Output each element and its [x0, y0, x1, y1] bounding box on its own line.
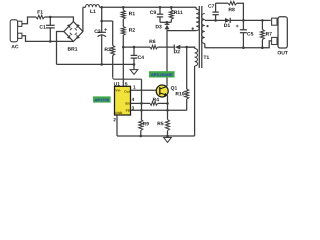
wire ground rail [117, 135, 195, 137]
node R9 bottom [140, 135, 143, 138]
resistor R3 [105, 21, 115, 56]
label AP3706 [93, 96, 111, 102]
inductor L1 [83, 5, 100, 14]
wire fuse to bridge top vertex [45, 17, 74, 22]
wire collector line [166, 31, 168, 87]
capacitor C4 [131, 47, 144, 64]
wire pin1 Out to Q1 base [131, 89, 160, 91]
wire pin4 EN line [131, 102, 168, 104]
node C4 top [133, 46, 136, 49]
capacitor C1 [40, 17, 55, 41]
node Vcc line start [122, 46, 125, 49]
wire AC neutral to bridge bottom vertex [22, 36, 74, 42]
wire D1 to out top [230, 19, 271, 21]
label APS13003E [149, 71, 175, 77]
capacitor C2 electrolytic [95, 7, 107, 64]
resistor R5 [158, 120, 170, 137]
node R3 link on C2 [100, 20, 103, 23]
capacitor C9 [150, 7, 163, 22]
fuse F1 [36, 10, 45, 19]
node F1-C1 [49, 16, 52, 19]
resistor R1 [121, 7, 135, 19]
wire output bottom line [205, 41, 272, 48]
capacitor C7 [208, 3, 219, 20]
node C1 bottom on AC2 line [49, 40, 52, 43]
node C5 bottom [242, 46, 245, 49]
resistor R4 [150, 98, 159, 105]
wire pin3 FB line [131, 109, 187, 111]
diode D1 [224, 18, 230, 27]
node R4 right [166, 102, 169, 105]
node column-pin4 [140, 102, 143, 105]
wire Q1 emitter down [167, 95, 169, 119]
diode D2 [174, 45, 180, 54]
wire top rail [100, 6, 197, 8]
node FB-emitter [166, 109, 169, 112]
ground symbol primary [130, 64, 138, 74]
transistor Q1 [156, 85, 177, 97]
resistor R11 [169, 7, 182, 22]
wire R2 down to IC Vin pin5 [122, 35, 124, 86]
node R11 rail [170, 6, 173, 9]
resistor R9 [139, 110, 149, 136]
node R7 bottom [261, 46, 264, 49]
transformer T1 core [199, 6, 209, 68]
wire R8 down to out node [237, 3, 244, 20]
connector AC input [10, 20, 22, 49]
node C7 bottom [214, 19, 217, 22]
transformer T1 aux winding [187, 47, 198, 136]
wire C2 to R3 link [102, 20, 113, 22]
wire R9 column from staircase [141, 79, 143, 110]
resistor R6 [150, 40, 158, 49]
wire negative bus [57, 63, 135, 65]
resistor R7 [260, 20, 271, 47]
IC U1 controller [114, 82, 136, 121]
transformer T1 primary [192, 7, 200, 30]
ground symbol at R5 [164, 136, 172, 142]
wire AC live to fuse [22, 17, 36, 24]
node C2 bus [100, 63, 103, 66]
node R5 bottom [166, 135, 169, 138]
wire bridge plus up to L1 [82, 7, 84, 31]
node R7 top [261, 19, 264, 22]
node R10 top [185, 46, 188, 49]
node C9 rail [159, 6, 162, 9]
resistor R2 [121, 19, 135, 35]
resistor R10 [176, 47, 189, 110]
node R1 top rail [122, 6, 125, 9]
wire secondary to D1 [205, 19, 225, 21]
node FB-R9col [140, 109, 143, 112]
node C4 bus end [133, 63, 136, 66]
wire IC pin2 to rail [116, 115, 118, 136]
bridge rectifier BR1 [64, 22, 83, 51]
wire Vcc line [123, 46, 195, 48]
transformer T1 secondary [202, 14, 209, 48]
node D3 on bar [166, 21, 169, 24]
wire bridge minus to riser [57, 32, 64, 65]
connector OUT [272, 17, 288, 55]
node out top [242, 19, 245, 22]
wire snubber bar [160, 21, 171, 23]
diode D3 [156, 22, 170, 30]
node C2 rail [100, 6, 103, 9]
wire C7 to R8 [216, 2, 228, 4]
resistor R8 [228, 1, 237, 11]
wire D3 to primary bottom [167, 30, 196, 32]
wire R3 down across bus to staircase [113, 56, 142, 80]
capacitor C5 [236, 20, 253, 47]
